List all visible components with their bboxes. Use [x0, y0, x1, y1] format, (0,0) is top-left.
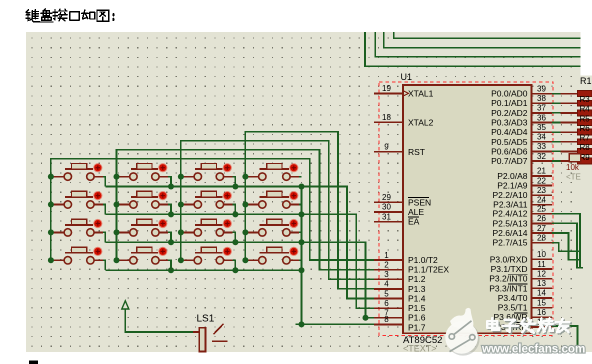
- pin 30 stub: [374, 211, 403, 213]
- svg-text:P0.6/AD6: P0.6/AD6: [491, 146, 528, 156]
- pin 28 stub: [531, 242, 552, 244]
- svg-text:P1.6: P1.6: [408, 313, 426, 323]
- svg-text:P0.7/AD7: P0.7/AD7: [491, 156, 528, 166]
- wire button row4 col4 to row bus: [299, 259, 301, 261]
- resistor R7 lead: [561, 141, 579, 143]
- wire P2.4/A12 pin 25: [552, 214, 580, 269]
- pin 23 stub: [531, 194, 552, 196]
- junction dot row bus 2 at col 4: [299, 211, 305, 217]
- pin 10 stub: [531, 258, 552, 260]
- junction dot column 1 row 4: [48, 257, 54, 263]
- svg-text:P2.1/A9: P2.1/A9: [497, 181, 528, 191]
- svg-text:<TE: <TE: [566, 173, 581, 182]
- svg-text:32: 32: [537, 152, 546, 161]
- pin 5 stub: [374, 298, 403, 300]
- junction dot column 2 row 3: [114, 229, 120, 235]
- wire P0.2 to resistor: [552, 112, 561, 114]
- pushbutton row4 col3: [181, 247, 233, 264]
- junction dot row bus 2 at col 3: [232, 211, 238, 217]
- overline PSEN: [408, 197, 429, 199]
- svg-text:11: 11: [537, 260, 546, 269]
- junction dot column 4 row 4: [242, 257, 248, 263]
- pin 29 stub: [374, 201, 403, 203]
- svg-text:XTAL1: XTAL1: [408, 88, 434, 98]
- junction dot column 2 row 4: [114, 257, 120, 263]
- pin 35 stub: [531, 131, 552, 133]
- pin 25 stub: [531, 213, 552, 215]
- svg-text:14: 14: [537, 289, 546, 298]
- svg-text:EA: EA: [408, 217, 420, 227]
- svg-text:P1.4: P1.4: [408, 294, 426, 304]
- junction dot column 3 row 1: [178, 174, 184, 180]
- junction dot row bus 3 at col 4: [299, 239, 305, 245]
- svg-text:P1.1/T2EX: P1.1/T2EX: [408, 265, 449, 275]
- pin 26 stub: [531, 222, 552, 224]
- resistor R6 body: [578, 129, 592, 135]
- svg-text:21: 21: [537, 167, 546, 176]
- svg-text:P1.2: P1.2: [408, 274, 426, 284]
- resistor R2 lead: [561, 93, 579, 95]
- svg-text:30: 30: [382, 203, 391, 212]
- svg-text:12: 12: [537, 269, 546, 278]
- LS1 lead: [193, 331, 199, 333]
- svg-text:15: 15: [537, 298, 546, 307]
- svg-text:R3: R3: [580, 95, 591, 104]
- svg-text:P2.0/A8: P2.0/A8: [497, 171, 528, 181]
- svg-text:<TEXT>: <TEXT>: [403, 344, 437, 354]
- svg-text:38: 38: [537, 94, 546, 103]
- svg-text:www.elecfans.com: www.elecfans.com: [481, 343, 585, 356]
- resistor R4 body: [578, 110, 592, 116]
- resistor R7 body: [578, 139, 592, 145]
- wire column 3 net (to P1.2): [181, 141, 374, 280]
- svg-text:37: 37: [537, 104, 546, 113]
- svg-text:3: 3: [384, 270, 389, 279]
- svg-text:P3.0/RXD: P3.0/RXD: [490, 254, 528, 264]
- svg-text:18: 18: [382, 113, 391, 122]
- op-amp U1 selection box (red dashed): [379, 82, 553, 336]
- svg-text:35: 35: [537, 123, 546, 132]
- pushbutton row2 col2: [117, 191, 169, 208]
- svg-text:ALE: ALE: [408, 207, 424, 217]
- pin 11 stub: [531, 268, 552, 270]
- resistor R5 body: [578, 120, 592, 126]
- wire row 1 net (to P1.4): [105, 187, 374, 299]
- svg-text:PSEN: PSEN: [408, 197, 431, 207]
- wire stub left of junction: [296, 323, 302, 325]
- pin 16 stub: [531, 316, 552, 318]
- svg-text:P1.3: P1.3: [408, 284, 426, 294]
- power terminal arrow: [122, 301, 129, 309]
- pin 4 stub: [374, 288, 403, 290]
- svg-text:P0.3/AD3: P0.3/AD3: [491, 118, 528, 128]
- svg-text:P0.5/AD5: P0.5/AD5: [491, 137, 528, 147]
- pin 34 stub: [531, 141, 552, 143]
- svg-text:R5: R5: [580, 114, 591, 123]
- svg-text:6: 6: [384, 299, 389, 308]
- wire button row2 col1 to row bus: [103, 205, 105, 215]
- wire P0.1 to resistor: [552, 102, 561, 104]
- wire row 4 net: [105, 269, 301, 271]
- svg-text:P2.4/A12: P2.4/A12: [493, 209, 528, 219]
- wire P2.7/A15 pin 28: [552, 243, 581, 252]
- svg-text:8: 8: [384, 315, 389, 324]
- sounder LS1 body: [199, 328, 205, 352]
- junction dot row bus 2 at col 2: [168, 211, 174, 217]
- svg-text:13: 13: [537, 279, 546, 288]
- resistor R3 body: [578, 100, 592, 106]
- pin 24 stub: [531, 204, 552, 206]
- wire button row1 col3 to row bus: [233, 177, 236, 187]
- pin 17 stub: [531, 326, 552, 328]
- svg-text:23: 23: [537, 186, 546, 195]
- wire P3.7/RD pin 17 to bottom: [552, 326, 578, 352]
- junction dot column 3 row 4: [178, 257, 184, 263]
- resistor R4 lead: [561, 112, 579, 114]
- cropped text fragment bottom left: [29, 361, 38, 364]
- svg-text:P2.5/A13: P2.5/A13: [493, 218, 528, 228]
- resistor R8 body: [578, 149, 592, 155]
- junction dot row bus 1 at col 4: [299, 184, 305, 190]
- pushbutton row3 col1: [51, 219, 103, 236]
- wire column 2 net (to P1.1): [117, 150, 375, 270]
- pin 27 stub: [531, 232, 552, 234]
- wire button row2 col3 to row bus: [233, 205, 236, 215]
- wire P0.5 to resistor: [552, 141, 561, 143]
- pushbutton row3 col2: [117, 219, 169, 236]
- wire button row2 col2 to row bus: [168, 205, 171, 215]
- pin 36 stub: [531, 122, 552, 124]
- wire terminal to LS1: [125, 309, 193, 332]
- svg-text:P2.7/A15: P2.7/A15: [493, 238, 528, 248]
- svg-text:R6: R6: [580, 124, 591, 133]
- svg-text:22: 22: [537, 176, 546, 185]
- junction dot row bus 3 at col 2: [168, 239, 174, 245]
- junction dot column 1 row 2: [48, 202, 54, 208]
- svg-text:10: 10: [537, 250, 546, 259]
- svg-text:P0.0/AD0: P0.0/AD0: [491, 89, 528, 99]
- junction dot column 2 row 2: [114, 202, 120, 208]
- wire row 2 net (to P1.5): [105, 214, 374, 308]
- svg-text:25: 25: [537, 205, 546, 214]
- junction dot bottom P1.7 net: [299, 321, 305, 327]
- junction dot column 1 row 3: [48, 229, 54, 235]
- pin 13 stub: [531, 287, 552, 289]
- wire P0.7 to resistor: [552, 160, 561, 162]
- pin 18 stub: [374, 121, 403, 123]
- pin 8 stub: [374, 323, 403, 325]
- junction dot column 4 row 1: [242, 174, 248, 180]
- wire P2.5/A13 pin 26: [552, 223, 583, 267]
- svg-text:P2.2/A10: P2.2/A10: [493, 190, 528, 200]
- svg-text:16: 16: [537, 308, 546, 317]
- svg-text:10k: 10k: [566, 163, 580, 172]
- svg-text:33: 33: [537, 142, 546, 151]
- junction dot row3 wire corner at pin7: [363, 315, 369, 321]
- svg-text:31: 31: [382, 212, 391, 221]
- resistor R9 body: [578, 158, 592, 164]
- pin 38 stub: [531, 102, 552, 104]
- pin 6 stub: [374, 307, 403, 309]
- junction dot row bus 4 at col 2: [168, 267, 174, 273]
- wire P2.6/A14 pin 27: [552, 233, 581, 260]
- svg-text:P3.4/T0: P3.4/T0: [498, 293, 528, 303]
- svg-text:P1.7: P1.7: [408, 322, 426, 332]
- pin 39 stub: [531, 93, 552, 95]
- svg-text:P3.5/T1: P3.5/T1: [498, 303, 528, 313]
- wire top bundle 2 (cut off net): [375, 32, 580, 57]
- pushbutton row1 col3: [181, 163, 233, 180]
- svg-text:RST: RST: [408, 147, 425, 157]
- pin 22 stub: [531, 185, 552, 187]
- svg-text:P3.1/TXD: P3.1/TXD: [491, 264, 528, 274]
- svg-text:4: 4: [384, 280, 389, 289]
- junction dot row bus 4 at col 3: [232, 267, 238, 273]
- wire top bundle 4 (cut off net): [394, 32, 581, 38]
- svg-text:27: 27: [537, 224, 546, 233]
- junction dot row bus 1 at col 2: [168, 184, 174, 190]
- svg-text:36: 36: [537, 113, 546, 122]
- watermark logo flame: [445, 308, 479, 356]
- svg-text:24: 24: [537, 195, 546, 204]
- sounder pin 2 stub: [212, 340, 228, 342]
- junction dot row bus 4 at col 4: [299, 267, 305, 273]
- overline RD: [514, 322, 528, 324]
- svg-text:28: 28: [537, 234, 546, 243]
- wire row4/P1.7 vertical to pin 8: [302, 187, 375, 325]
- wire button row2 col4 to row bus: [299, 204, 301, 206]
- resistor R8 lead: [561, 150, 579, 152]
- svg-text:39: 39: [537, 84, 546, 93]
- svg-text:5: 5: [384, 289, 389, 298]
- pin 1 stub: [374, 259, 403, 261]
- sounder slash mark: [214, 324, 224, 334]
- pushbutton row1 col4: [245, 163, 299, 180]
- resistor R3 lead: [561, 102, 579, 104]
- pin 12 stub: [531, 278, 552, 280]
- pushbutton row2 col4: [245, 191, 299, 208]
- junction dot column 1 row 1: [48, 174, 54, 180]
- pushbutton row3 col3: [181, 219, 233, 236]
- watermark text dianzifashaoyou: [487, 318, 571, 334]
- wire button row3 col2 to row bus: [168, 232, 171, 242]
- junction dot column 4 row 2: [242, 202, 248, 208]
- pin 9 stub: [374, 151, 403, 153]
- svg-text:P1.5: P1.5: [408, 303, 426, 313]
- resistor R2 body: [578, 91, 592, 97]
- overline INT1: [508, 283, 528, 285]
- overline INT0: [508, 273, 528, 275]
- pushbutton row4 col4: [245, 247, 299, 264]
- junction dot row bus 3 at col 3: [232, 239, 238, 245]
- pin 33 stub: [531, 150, 552, 152]
- wire button row3 col1 to row bus: [103, 232, 105, 242]
- svg-text:LS1: LS1: [197, 314, 215, 325]
- svg-text:P3.3/INT1: P3.3/INT1: [489, 283, 528, 293]
- svg-text:19: 19: [382, 84, 391, 93]
- svg-text:U1: U1: [401, 72, 413, 82]
- svg-text:1: 1: [384, 251, 389, 260]
- IC U1 AT89C52 body: [403, 85, 531, 333]
- wire P0.4 to resistor: [552, 131, 561, 133]
- junction dot row bus 1 at col 3: [232, 184, 238, 190]
- page title text "键盘接口如图:": [26, 9, 113, 22]
- svg-text:P3.2/INT0: P3.2/INT0: [489, 274, 528, 284]
- pin 15 stub: [531, 307, 552, 309]
- svg-text:2: 2: [384, 260, 389, 269]
- pin 3 stub: [374, 278, 403, 280]
- wire button row3 col3 to row bus: [233, 232, 236, 242]
- svg-text:R4: R4: [580, 105, 591, 114]
- wire column 4 net (to P1.3): [245, 132, 374, 289]
- pin 32 stub: [531, 160, 552, 162]
- pushbutton row2 col3: [181, 191, 233, 208]
- wire button row3 col4 to row bus: [299, 231, 301, 233]
- svg-text:29: 29: [382, 193, 391, 202]
- wire button row4 col2 to row bus: [168, 260, 171, 270]
- svg-text:P0.1/AD1: P0.1/AD1: [491, 98, 528, 108]
- junction dot column 2 row 1: [114, 174, 120, 180]
- svg-text:P0.4/AD4: P0.4/AD4: [491, 127, 528, 137]
- junction dot column 3 row 3: [178, 229, 184, 235]
- wire P0.3 to resistor: [552, 122, 561, 124]
- svg-text:34: 34: [537, 133, 546, 142]
- pin 14 stub: [531, 297, 552, 299]
- pushbutton row4 col1: [51, 247, 103, 264]
- resistor R6 lead: [561, 131, 579, 133]
- pin 21 stub: [531, 175, 552, 177]
- wire button row1 col2 to row bus: [168, 177, 171, 187]
- overline EA: [408, 216, 419, 218]
- resistor body (beige, partially visible): [569, 154, 581, 162]
- svg-text:R7: R7: [580, 134, 591, 143]
- wire button row1 col1 to row bus: [103, 177, 105, 187]
- junction dot column 3 row 2: [178, 202, 184, 208]
- pushbutton row1 col1: [51, 163, 103, 180]
- pushbutton row4 col2: [117, 247, 169, 264]
- pushbutton row3 col4: [245, 219, 299, 236]
- wire P0.0 to resistor: [552, 93, 561, 95]
- pushbutton row1 col2: [117, 163, 169, 180]
- wire button row1 col4 to row bus: [299, 176, 301, 178]
- resistor R5 lead: [561, 122, 579, 124]
- pin 2 stub: [374, 269, 403, 271]
- svg-text:R8: R8: [580, 143, 591, 152]
- wire button row4 col1 to row bus: [103, 260, 105, 270]
- pushbutton row2 col1: [51, 191, 103, 208]
- svg-text:XTAL2: XTAL2: [408, 117, 434, 127]
- wire row 3 net (to P1.6): [105, 242, 374, 317]
- wire top bundle 1 (cut off net): [365, 32, 581, 66]
- pin 37 stub: [531, 112, 552, 114]
- svg-text:R1: R1: [580, 76, 592, 86]
- resistor R9 lead: [561, 160, 579, 162]
- pin 7 stub: [374, 317, 403, 319]
- svg-text:9: 9: [384, 143, 389, 152]
- svg-text:P0.2/AD2: P0.2/AD2: [491, 108, 528, 118]
- wire button row4 col3 to row bus: [233, 260, 236, 270]
- wire column 1 net (to P1.0): [51, 159, 374, 261]
- svg-text:26: 26: [537, 214, 546, 223]
- svg-text:P2.6/A14: P2.6/A14: [493, 228, 528, 238]
- wire top bundle 3 (cut off net): [384, 32, 581, 48]
- pin 19 stub: [374, 92, 403, 94]
- svg-text:P1.0/T2: P1.0/T2: [408, 255, 438, 265]
- pin 31 stub: [374, 221, 403, 223]
- wire P0.6 to resistor: [552, 150, 561, 152]
- junction dot column 4 row 3: [242, 229, 248, 235]
- XTAL1 clock input arrow: [403, 91, 409, 97]
- overline WR: [514, 312, 528, 314]
